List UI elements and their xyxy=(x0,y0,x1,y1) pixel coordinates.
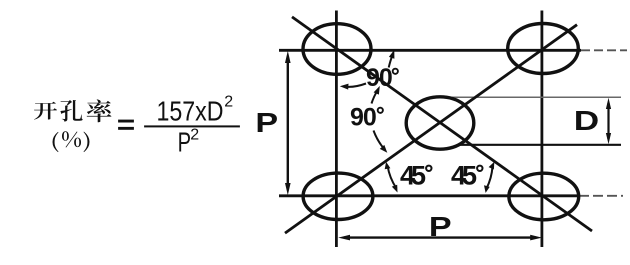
P dimension line left vertical xyxy=(287,57,289,189)
arrow 90 lower to diagonal BL-TR xyxy=(374,131,384,148)
horizontal grid line top row xyxy=(279,49,581,52)
open paren xyxy=(53,132,59,152)
svg-text:2: 2 xyxy=(190,126,199,143)
degree mark upper 90 xyxy=(393,69,398,74)
arrow 90 upper to vertical line xyxy=(346,84,366,87)
D bottom extension line xyxy=(459,144,621,146)
arrow 90 upper to horizontal line xyxy=(389,55,393,68)
vertical grid line left column xyxy=(335,11,338,248)
vertical grid line right column xyxy=(541,11,544,248)
degree mark right 45 xyxy=(477,166,482,171)
label kai (开) xyxy=(34,102,57,120)
arrowhead up (P left top) xyxy=(285,51,291,63)
svg-text:D: D xyxy=(574,105,599,136)
arrowhead right (P bottom) xyxy=(530,235,542,241)
svg-text:P: P xyxy=(429,211,452,242)
equals sign xyxy=(118,120,134,130)
label kong (孔) xyxy=(60,100,82,122)
arrowhead down (D bottom) xyxy=(606,133,611,144)
horizontal grid line bottom row dashed right part xyxy=(579,195,623,197)
arrowhead down (P left bottom) xyxy=(285,183,291,195)
label lv (率) xyxy=(87,99,112,122)
hole circle top-right xyxy=(508,24,579,74)
horizontal grid line bottom row xyxy=(279,194,579,197)
svg-text:P: P xyxy=(178,128,191,159)
D dimension arrow vertical xyxy=(607,103,609,139)
close paren xyxy=(84,132,90,153)
diagonal line BL-TR xyxy=(285,25,577,233)
hole circle bottom-right xyxy=(509,173,579,220)
hole circle center xyxy=(406,97,474,149)
hole circle bottom-left xyxy=(303,173,373,219)
arrowhead left (P bottom) xyxy=(338,235,350,241)
fraction bar xyxy=(144,125,240,127)
svg-text:45: 45 xyxy=(400,161,426,191)
P dimension line bottom xyxy=(344,236,536,238)
arrowhead up (D top) xyxy=(606,98,611,109)
hole circle top-left xyxy=(303,24,371,75)
arrow 90 lower to diagonal TL-BR xyxy=(372,92,378,104)
D top extension line xyxy=(445,96,621,98)
arc 45 left xyxy=(388,166,397,189)
svg-text:2: 2 xyxy=(224,94,233,111)
svg-text:157xD: 157xD xyxy=(157,96,224,127)
degree mark lower 90 xyxy=(378,108,383,113)
svg-text:45: 45 xyxy=(451,161,477,191)
arc 45 right xyxy=(487,167,493,189)
degree mark left 45 xyxy=(426,166,431,171)
percent sign xyxy=(62,131,81,147)
svg-text:P: P xyxy=(255,107,278,138)
diagonal line TL-BR xyxy=(292,17,592,231)
horizontal grid line top row dashed right part xyxy=(581,49,627,51)
svg-text:90: 90 xyxy=(350,104,376,132)
